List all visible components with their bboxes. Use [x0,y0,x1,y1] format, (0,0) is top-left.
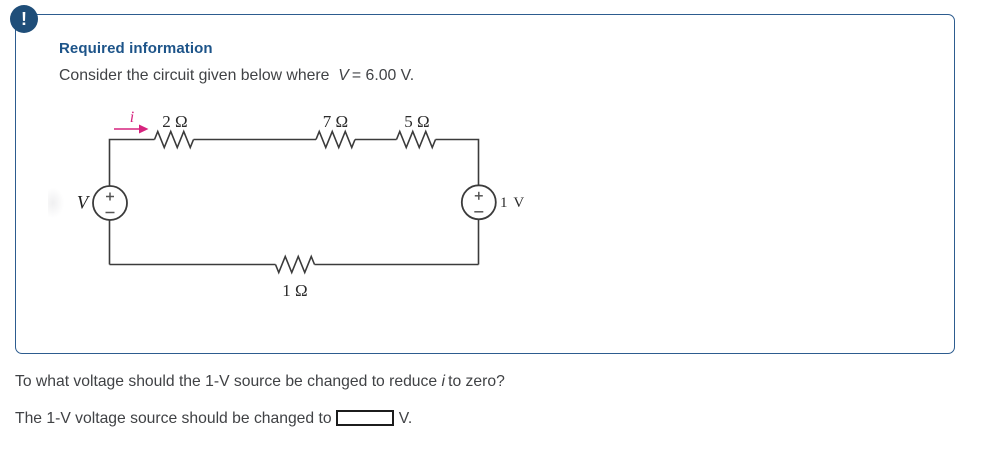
resistor R3 5ohm zigzag [397,132,436,148]
wire right below source [478,220,480,265]
current arrow i [114,125,149,134]
minus sign 1V source [474,211,483,213]
svg-text:1 Ω: 1 Ω [282,281,307,300]
wire left below V source [109,220,111,265]
alert info panel border [15,14,955,354]
voltage source V circle [93,186,127,220]
plus sign 1V source [475,195,483,197]
heading Required information [59,40,213,57]
svg-text:V: V [77,194,91,214]
resistor R2 7ohm zigzag [316,132,355,148]
voltage source 1V circle [462,185,496,219]
svg-text:2 Ω: 2 Ω [162,112,187,131]
wire top-right corner down to 1V source [436,140,479,186]
wire top-left segment [110,140,155,187]
prompt line [59,67,414,85]
svg-text:1 V: 1 V [500,195,525,211]
faint scan smudge [48,188,64,218]
plus sign V source [106,196,114,198]
resistor R4 1ohm zigzag [276,257,315,273]
exclamation badge [10,5,38,33]
wire top middle segment [194,139,317,141]
resistor R1 2ohm zigzag [155,132,194,148]
answer line with input [15,410,412,428]
wire between 7ohm and 5ohm [355,139,397,141]
svg-text:5 Ω: 5 Ω [404,112,429,131]
wire bottom right segment [315,264,479,266]
svg-text:7 Ω: 7 Ω [323,112,348,131]
question text [15,373,505,391]
svg-text:i: i [130,109,134,126]
minus sign V source [106,212,115,214]
wire bottom left segment [110,264,276,266]
